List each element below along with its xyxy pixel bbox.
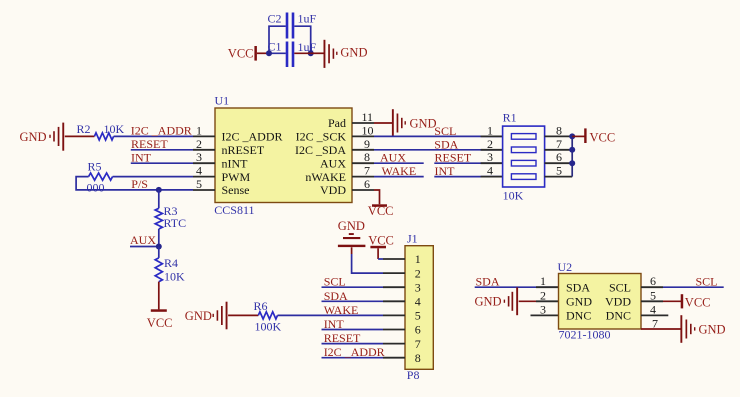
svg-text:2: 2 — [415, 266, 421, 280]
ground (above J1) — [338, 219, 366, 247]
svg-text:4: 4 — [487, 164, 493, 178]
power port VCC (U2 pin 5) — [681, 294, 711, 309]
svg-text:GND: GND — [410, 117, 437, 131]
svg-text:SCL: SCL — [696, 275, 718, 289]
junction R1 pin 6 — [569, 160, 575, 166]
wire WAKE stub from U1 pin 7 — [374, 176, 424, 178]
U1 pin 7 stub — [352, 176, 374, 178]
svg-text:7: 7 — [415, 337, 421, 351]
svg-text:P8: P8 — [407, 368, 420, 382]
svg-text:AUX: AUX — [380, 151, 406, 165]
wire node A to C1 left plate — [269, 52, 286, 54]
wire bus to VCC — [572, 135, 585, 137]
svg-text:RESET: RESET — [435, 151, 472, 165]
wire INT to J1 pin 6 — [322, 329, 384, 331]
svg-text:PWM: PWM — [222, 170, 251, 184]
svg-text:VCC: VCC — [228, 47, 254, 61]
humidity sensor U2 body 7021-1080 — [558, 260, 642, 342]
svg-text:10K: 10K — [164, 270, 185, 284]
svg-text:11: 11 — [362, 110, 374, 124]
svg-text:2: 2 — [196, 137, 202, 151]
svg-text:VCC: VCC — [685, 296, 711, 310]
wire SCL: U1 pin 10 to R1 pin 1 — [374, 135, 503, 137]
svg-text:9: 9 — [364, 137, 370, 151]
U2 pin 1 stub — [536, 286, 559, 288]
wire INT to U1 pin 3 — [131, 162, 193, 164]
ground (U2 pin 2) — [475, 287, 519, 315]
svg-text:1: 1 — [415, 252, 421, 266]
wire U1 pin 4 to R5 — [113, 176, 193, 178]
R1 right pin numbers — [556, 123, 562, 177]
svg-text:10: 10 — [362, 123, 374, 137]
svg-text:VDD: VDD — [320, 183, 346, 197]
wire R5 loop down to P/S line — [76, 177, 193, 190]
svg-text:I2C _ADDR: I2C _ADDR — [131, 124, 192, 138]
R1 left stubs — [481, 136, 503, 176]
svg-text:WAKE: WAKE — [382, 164, 417, 178]
svg-text:6: 6 — [556, 150, 562, 164]
wire RESET to R1 pin 3 — [434, 162, 502, 164]
svg-text:VCC: VCC — [368, 204, 394, 218]
svg-text:GND: GND — [185, 309, 212, 323]
svg-text:5: 5 — [196, 177, 202, 191]
U1 pin 6 stub — [352, 189, 374, 191]
wire node B to GND — [311, 52, 324, 54]
connector J1 body — [405, 232, 433, 383]
wire R6 to J1 pin 5 (WAKE) — [278, 314, 384, 316]
U2 pin 5 stub — [641, 300, 663, 302]
U1 pin 8 stub — [352, 162, 374, 164]
svg-text:7: 7 — [364, 164, 370, 178]
svg-text:4: 4 — [196, 164, 202, 178]
svg-text:4: 4 — [650, 302, 656, 316]
svg-text:RTC: RTC — [164, 216, 187, 230]
svg-text:8: 8 — [364, 150, 370, 164]
svg-text:1: 1 — [196, 123, 202, 137]
svg-text:DNC: DNC — [566, 309, 591, 323]
svg-text:GND: GND — [475, 295, 502, 309]
svg-text:10K: 10K — [104, 122, 125, 136]
wire I2C ADDR to J1 pin 8 — [322, 357, 384, 359]
wire VCC to node A — [257, 52, 269, 54]
ground (left of R2) — [20, 123, 65, 151]
svg-text:INT: INT — [324, 317, 345, 331]
svg-text:INT: INT — [435, 164, 456, 178]
svg-text:GND: GND — [338, 219, 365, 233]
svg-text:7: 7 — [556, 137, 562, 151]
svg-text:GND: GND — [340, 46, 367, 60]
wire AUX stub from U1 pin 8 — [374, 162, 424, 164]
resistor R6 100K — [254, 299, 282, 333]
svg-text:3: 3 — [540, 302, 546, 316]
U2 pin 3 stub — [531, 314, 559, 316]
svg-text:GND: GND — [699, 323, 726, 337]
svg-text:6: 6 — [415, 323, 421, 337]
resistor network R1 10K — [503, 111, 545, 203]
U1 pin names left column — [222, 130, 283, 198]
svg-text:Pad: Pad — [328, 116, 346, 130]
svg-text:R2: R2 — [77, 122, 91, 136]
power port VCC (below R4) — [147, 309, 173, 330]
wire U2 pin 5 to VCC — [663, 300, 681, 302]
svg-text:5: 5 — [415, 309, 421, 323]
wire R4 to VCC — [158, 282, 160, 310]
svg-text:J1: J1 — [407, 232, 418, 246]
svg-text:DNC: DNC — [606, 309, 631, 323]
wire U1 pin 11 to GND — [374, 122, 392, 124]
U2 left pin numbers — [540, 274, 546, 316]
svg-text:Sense: Sense — [222, 183, 250, 197]
U1 pin 11 stub — [352, 122, 374, 124]
wire SDA to U2 pin 1 — [475, 286, 559, 288]
resistor R4 10K — [155, 256, 185, 284]
svg-text:SDA: SDA — [566, 280, 590, 294]
wire GND to U2 pin 2 — [519, 300, 536, 302]
ground (top right) — [324, 40, 368, 68]
junction on P/S line — [156, 187, 162, 193]
svg-text:R4: R4 — [164, 256, 178, 270]
U1 pin 10 stub — [352, 135, 374, 137]
wire R3 to AUX node — [158, 229, 160, 247]
wire GND to J1 pin 2 — [352, 254, 383, 273]
svg-text:R1: R1 — [503, 111, 517, 125]
node A junction — [266, 50, 272, 56]
svg-text:1uF: 1uF — [298, 40, 317, 54]
wire INT to R1 pin 4 — [434, 176, 502, 178]
power port VCC (above J1) — [368, 233, 394, 248]
svg-text:VCC: VCC — [147, 316, 173, 330]
wire RESET to U1 pin 2 — [131, 149, 193, 151]
U2 right pin numbers — [650, 274, 658, 330]
svg-text:3: 3 — [415, 280, 421, 294]
svg-text:R5: R5 — [88, 159, 102, 173]
U1 pin 9 stub — [352, 149, 374, 151]
U1 pin names right column — [295, 116, 346, 197]
wire R2 to U1 pin 1 — [114, 135, 193, 137]
svg-text:GND: GND — [20, 130, 47, 144]
junction R1 pin 7 — [569, 147, 575, 153]
capacitor C2 — [268, 12, 317, 39]
wire AUX node to R4 — [158, 247, 160, 258]
wire C1 right plate to node B — [294, 52, 310, 54]
wire C2 loop right — [294, 26, 310, 53]
svg-text:3: 3 — [487, 150, 493, 164]
wire U2 pin 6 to SCL — [663, 286, 724, 288]
svg-text:VCC: VCC — [368, 233, 394, 247]
svg-text:1uF: 1uF — [298, 12, 317, 26]
svg-text:SCL: SCL — [609, 280, 631, 294]
svg-text:VCC: VCC — [590, 131, 616, 145]
svg-text:000: 000 — [87, 180, 105, 194]
J1 pin stubs — [383, 259, 405, 358]
svg-text:6: 6 — [650, 274, 656, 288]
svg-text:7021-1080: 7021-1080 — [559, 328, 611, 342]
svg-text:1: 1 — [487, 123, 493, 137]
svg-text:SCL: SCL — [324, 275, 346, 289]
U2 pin 6 stub — [641, 286, 663, 288]
wire VCC stem — [377, 248, 379, 259]
svg-text:CCS811: CCS811 — [214, 203, 254, 217]
wire AUX stub — [130, 246, 159, 248]
U1 right pin numbers — [362, 110, 374, 191]
U1 pin 5 stub — [193, 189, 215, 191]
svg-text:AUX: AUX — [320, 156, 346, 170]
resistor R3 RTC — [155, 204, 186, 230]
svg-text:U2: U2 — [558, 260, 573, 274]
U1 pin 4 stub — [193, 176, 215, 178]
op-amp U1 body CCS811 — [214, 93, 352, 217]
svg-text:10K: 10K — [503, 189, 524, 203]
U1 pin 2 stub — [193, 149, 215, 151]
svg-text:RESET: RESET — [131, 137, 168, 151]
ground (U2 pin 7) — [680, 315, 725, 343]
wire SCL to J1 pin 3 — [322, 286, 384, 288]
svg-text:nINT: nINT — [222, 156, 249, 170]
power port VCC (top left) — [228, 46, 257, 61]
wire R1 output bus — [571, 136, 573, 176]
wire junction down to R3 — [158, 190, 160, 208]
J1 pin numbers — [415, 252, 421, 365]
svg-text:8: 8 — [556, 123, 562, 137]
U2 pin names — [566, 280, 631, 322]
svg-text:1: 1 — [540, 274, 546, 288]
svg-text:INT: INT — [131, 150, 152, 164]
wire SDA: U1 pin 9 to R1 pin 2 — [374, 149, 503, 151]
ground (U1 pin 11) — [392, 109, 437, 137]
wire GND to R6 — [228, 314, 258, 316]
svg-text:5: 5 — [556, 164, 562, 178]
svg-text:I2C _ADDR: I2C _ADDR — [222, 130, 283, 144]
capacitor C1 — [268, 40, 317, 68]
svg-text:I2C _SDA: I2C _SDA — [295, 143, 346, 157]
node B junction — [308, 50, 314, 56]
wire GND to R2 — [65, 135, 95, 137]
svg-text:VDD: VDD — [605, 295, 631, 309]
svg-text:8: 8 — [415, 351, 421, 365]
svg-text:SDA: SDA — [434, 137, 458, 151]
svg-text:P/S: P/S — [131, 177, 148, 191]
svg-text:SDA: SDA — [324, 289, 348, 303]
wire GND stem — [351, 247, 353, 254]
wire SDA to J1 pin 4 — [322, 300, 384, 302]
svg-text:GND: GND — [566, 295, 592, 309]
svg-text:100K: 100K — [255, 320, 282, 334]
svg-text:I2C _ADDR: I2C _ADDR — [324, 345, 385, 359]
svg-text:C2: C2 — [268, 12, 282, 26]
junction AUX node — [156, 244, 162, 250]
wire C2 loop left — [269, 26, 286, 53]
U2 pin 2 stub — [536, 300, 559, 302]
svg-text:2: 2 — [487, 137, 493, 151]
resistor R2 10K — [77, 122, 125, 140]
resistor R5 000 — [87, 159, 113, 194]
svg-text:AUX: AUX — [130, 233, 156, 247]
R1 left pin numbers — [487, 123, 493, 177]
svg-text:SCL: SCL — [434, 124, 456, 138]
wire U2 pin 7 to GND — [641, 328, 681, 330]
svg-text:U1: U1 — [215, 93, 230, 107]
svg-text:3: 3 — [196, 150, 202, 164]
U1 pin 1 stub — [193, 135, 215, 137]
ground (left of R6) — [185, 302, 228, 330]
svg-text:6: 6 — [364, 177, 370, 191]
svg-text:2: 2 — [540, 288, 546, 302]
U1 left pin numbers — [196, 123, 202, 191]
wire RESET to J1 pin 7 — [322, 343, 384, 345]
R1 right stubs — [545, 136, 573, 176]
svg-text:nWAKE: nWAKE — [305, 170, 346, 184]
power port VCC (right of R1) — [584, 128, 615, 144]
svg-text:RESET: RESET — [324, 331, 361, 345]
power port VCC (below U1 pin 6) — [368, 204, 394, 218]
svg-text:5: 5 — [650, 288, 656, 302]
svg-text:nRESET: nRESET — [222, 143, 265, 157]
svg-text:I2C _SCK: I2C _SCK — [296, 130, 347, 144]
wire VCC to J1 pin 1 — [378, 258, 383, 260]
U2 pin 4 stub — [641, 314, 668, 316]
svg-text:4: 4 — [415, 295, 421, 309]
U1 pin 3 stub — [193, 162, 215, 164]
junction R1 pin 8 — [569, 133, 575, 139]
wire U1 pin 6 to VCC — [374, 190, 380, 204]
